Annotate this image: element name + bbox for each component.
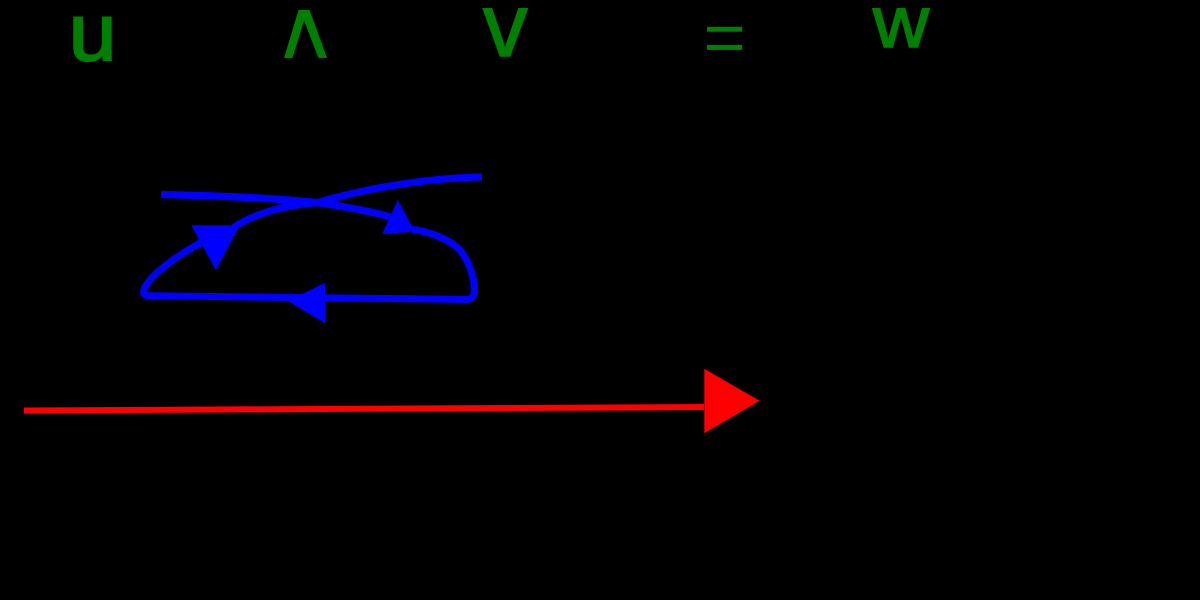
wedge operator (284, 10, 327, 58)
blue near-straight line (u direction) (161, 195, 390, 218)
loop: left arc, bottom line, right arc (144, 229, 475, 299)
bottom left-pointing arrowhead (288, 283, 325, 323)
svg-text:v: v (483, 0, 528, 75)
big down-left arrowhead (191, 225, 240, 270)
equals sign (707, 27, 742, 32)
red arrowhead (704, 369, 759, 433)
up-pointing arrowhead on right arc (382, 200, 415, 234)
svg-text:w: w (872, 0, 930, 62)
label u (green) (69, 0, 117, 77)
label w (green) (872, 0, 930, 62)
blue curve through crossing (v direction) (233, 177, 482, 228)
red vector line w (24, 407, 704, 411)
svg-text:u: u (69, 0, 117, 77)
